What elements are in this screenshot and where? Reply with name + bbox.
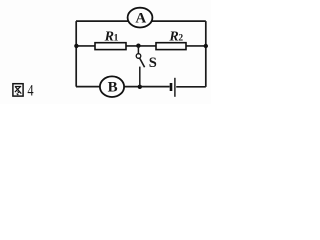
svg-text:1: 1 xyxy=(114,34,119,44)
battery cell negative short plate xyxy=(170,83,173,91)
svg-text:4: 4 xyxy=(27,83,33,100)
ammeter A1 xyxy=(128,8,153,28)
node junction bottom xyxy=(138,85,142,89)
wire bottom right segment xyxy=(176,86,206,88)
wire left side xyxy=(75,21,77,87)
node junction middle xyxy=(136,44,140,48)
svg-text:A: A xyxy=(135,11,146,27)
resistor R2 xyxy=(156,43,186,50)
switch S blade xyxy=(140,58,145,67)
wire switch upper stub xyxy=(137,46,139,54)
caption glyph tu (figure) xyxy=(13,84,23,96)
svg-text:2: 2 xyxy=(178,34,183,44)
svg-text:R: R xyxy=(168,29,178,44)
node junction right xyxy=(204,44,208,48)
svg-text:B: B xyxy=(108,80,118,96)
svg-text:R: R xyxy=(104,29,114,44)
wire switch lower stub xyxy=(139,67,141,87)
wire right side xyxy=(205,21,207,87)
svg-text:S: S xyxy=(149,55,157,71)
bulb B1 xyxy=(100,76,124,97)
wire bottom left segment xyxy=(76,86,170,88)
node junction left xyxy=(74,44,78,48)
wire middle row xyxy=(76,45,206,47)
resistor R1 xyxy=(95,43,126,50)
battery cell positive long plate xyxy=(174,78,176,97)
switch S pivot xyxy=(136,54,141,59)
wire top side xyxy=(76,20,206,22)
